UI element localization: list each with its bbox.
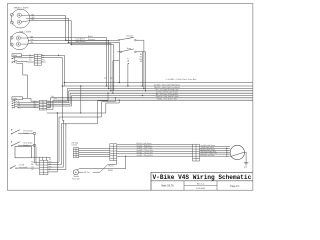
node bus2 tee (62, 85, 63, 86)
connector J6 (193, 144, 200, 161)
date cell (196, 188, 206, 190)
wire lights box to J2 (23, 98, 40, 101)
node feeder tee (57, 112, 58, 113)
wire tail light 2 (28, 41, 109, 89)
svg-text:Blk: Blk (29, 55, 31, 57)
controller label (72, 142, 79, 146)
bus spare labels (51, 96, 57, 100)
connector J2 left labels (34, 101, 37, 109)
svg-text:Page # 1: Page # 1 (230, 186, 240, 188)
svg-text:Blk: Blk (31, 36, 34, 38)
wire J5 to J6 row 3 (117, 148, 193, 150)
throttle wire label (108, 165, 114, 172)
wire J6 to motor 6 (200, 155, 230, 157)
svg-text:Grn: Grn (31, 166, 34, 168)
rear brake label (23, 142, 32, 146)
connector J1 (34, 54, 41, 65)
motor bundle label 2 (137, 144, 153, 147)
svg-text:Key Switch: Key Switch (19, 166, 28, 169)
wire bus line 6 (72, 95, 253, 97)
wire key switch to J3 (17, 167, 40, 169)
border frame (8, 4, 253, 191)
bus label 1 (166, 78, 197, 81)
svg-text:Gry: Gry (42, 60, 45, 62)
wire sel 3 to J2 (17, 105, 39, 107)
wire J5 to J6 row 1 (117, 143, 193, 145)
svg-text:Blu: Blu (32, 19, 35, 21)
svg-text:Org: Org (51, 96, 54, 98)
bus label 3 (154, 86, 180, 89)
wire bus line 5 (70, 92, 253, 94)
motor wire label 4 (201, 150, 217, 153)
rear brake switch (11, 141, 20, 146)
wire head light low beam (30, 16, 118, 40)
selector labels (18, 101, 21, 110)
wire throttle 2 (93, 161, 117, 173)
wire sel 1 to J2 (17, 102, 39, 104)
wire throttle 3 (77, 156, 126, 170)
svg-text:Red: Red (29, 57, 32, 59)
wire feeder tap 4 (65, 124, 67, 170)
svg-text:Blk: Blk (31, 164, 33, 166)
connector J3 left labels (31, 162, 34, 171)
wire turn R to J1 (17, 60, 35, 63)
svg-text:Running: Running (88, 39, 95, 41)
svg-text:Red: Red (31, 162, 34, 164)
wire battery to J3 (32, 156, 51, 158)
wire tail light 1 (28, 38, 106, 86)
svg-text:Yel/Blk - Horn Button Wire: Yel/Blk - Horn Button Wire (157, 98, 178, 101)
wire dimmer to bus (136, 40, 144, 88)
motor wire label 6 (201, 154, 215, 157)
tail light wire labels (31, 36, 34, 44)
bus label 2 (154, 83, 181, 86)
tail wire mid labels (88, 36, 95, 41)
front brake plug (33, 132, 35, 134)
motor wire label 3 (201, 148, 216, 151)
wire flasher to J1 (22, 54, 35, 56)
title text (153, 174, 252, 181)
selector switch stack (12, 99, 18, 108)
wire battery drop 3 (45, 157, 47, 160)
wire J6 to motor 1 (200, 146, 230, 148)
motor wire label 2 (201, 146, 215, 149)
svg-text:Lt Grn/Blk + Lt/Grn Power From: Lt Grn/Blk + Lt/Grn Power From Batt (166, 78, 197, 81)
wire tail light 3 (28, 43, 111, 91)
bus label 7 (155, 95, 178, 98)
wire J6 to motor 4 (200, 151, 230, 153)
wire J3 out 2 (48, 164, 61, 166)
svg-text:Brake: Brake (88, 36, 93, 38)
wire head light ground (30, 21, 114, 91)
wire bus line 8 (53, 99, 253, 101)
wire front brake drop (34, 134, 39, 162)
head light lamp (10, 9, 30, 28)
wire battery drop 2 (42, 157, 44, 160)
wire J1 out 1 (41, 55, 64, 86)
wire J5 to J6 row 6 (117, 155, 193, 157)
wire front brake (18, 132, 33, 134)
bus drop labels (105, 76, 113, 79)
wire cluster drop (17, 64, 28, 99)
wire battery drop 1 (38, 157, 40, 160)
page cell (230, 186, 240, 188)
wire J5 to J6 row 4 (117, 150, 193, 152)
svg-text:gnd: gnd (244, 166, 247, 168)
svg-text:Horn: Horn (127, 48, 131, 50)
svg-text:High Beam: High Beam (76, 41, 86, 43)
svg-text:Hi: Hi (18, 101, 20, 103)
wire rear brake (18, 144, 33, 146)
rev cell (197, 183, 205, 185)
wire bus line 1 (64, 82, 252, 84)
svg-text:Blu: Blu (49, 169, 51, 171)
wire feeder drop 1 (48, 113, 58, 172)
motor wire label 5 (201, 152, 217, 155)
connector J1 right labels (42, 55, 45, 62)
front brake switch (11, 129, 20, 134)
wire J2 out 4 (47, 96, 72, 107)
wire battery drop 4 (49, 157, 51, 160)
rear brake plug (33, 144, 35, 146)
motor bundle label 6 (137, 154, 153, 157)
motor bundle label 4 (137, 149, 154, 152)
high beam label (76, 41, 86, 43)
motor M1 (230, 145, 244, 159)
wire bus8 to J2 (47, 100, 53, 109)
wire J1 out 2 feeder (41, 58, 62, 121)
flasher box (12, 54, 22, 57)
wire sel 4 to J2 (17, 107, 39, 109)
wire color stack labels (139, 54, 143, 63)
wire horn to bus 1 (141, 52, 143, 86)
motor bundle label 5 (137, 151, 154, 154)
ground symbol (244, 163, 248, 169)
connector J3 right labels (49, 162, 52, 171)
node power tap (80, 85, 81, 86)
svg-text:Blk/Wht: Blk/Wht (108, 169, 114, 172)
svg-text:Lo: Lo (18, 103, 20, 105)
dimmer switch (118, 37, 144, 41)
svg-text:Grn/Blk + Phase Wire: Grn/Blk + Phase Wire (137, 154, 153, 157)
wire throttle 1 (79, 171, 84, 173)
throttle pot label (84, 171, 90, 174)
wire J6 to motor 2 (200, 147, 230, 149)
svg-text:Pnk: Pnk (54, 98, 57, 100)
tail light label (19, 30, 32, 33)
wire J4 to J5 row 2 (79, 150, 110, 152)
throttle label (72, 175, 80, 180)
wire J3 out 3 (48, 166, 64, 168)
wire bus line 3 (67, 88, 253, 90)
node head light elbows (65, 40, 72, 46)
connector J3 (40, 160, 48, 174)
svg-text:Blu: Blu (31, 42, 34, 44)
wire feeder run 3 (61, 93, 108, 165)
motor wire label 1 (201, 144, 216, 147)
svg-text:1-29-2005: 1-29-2005 (196, 188, 206, 190)
node J1 out junction (58, 55, 65, 84)
svg-text:Gry: Gry (31, 39, 34, 41)
svg-text:Blk: Blk (140, 61, 143, 63)
svg-text:Red: Red (49, 162, 52, 164)
wire horn to bus 2 (145, 52, 147, 91)
connector J2 right labels (48, 100, 51, 109)
motor bundle label 3 (137, 147, 153, 150)
connector J2 (39, 100, 47, 110)
head light wire labels (32, 14, 36, 21)
wire turn L to J1 (17, 57, 35, 59)
svg-text:Dimmer: Dimmer (126, 36, 133, 38)
motor wire arrowheads (226, 148, 228, 157)
horn button label (127, 48, 131, 50)
wire J3 out 1 (48, 161, 59, 163)
tail light lamp (10, 32, 28, 50)
wire J2 out 2 (47, 91, 69, 103)
wire bus7 to J2 (47, 98, 51, 108)
svg-text:Control: Control (72, 144, 78, 147)
wire horn left lead (113, 52, 120, 93)
svg-text:Yel: Yel (31, 169, 34, 171)
wire dashed drop (126, 58, 129, 86)
connector J1 left labels (29, 55, 32, 62)
dimmer switch label (126, 36, 133, 38)
wire feeder run 1 (47, 100, 119, 113)
connector J5 (110, 144, 117, 161)
wire rear brake drop (36, 146, 40, 165)
throttle twist grip (73, 170, 78, 175)
horn button switch (117, 49, 145, 53)
svg-text:HEAD LIGHT: HEAD LIGHT (14, 6, 30, 9)
bus label 5 (156, 91, 179, 94)
wire feeder tap 3 (63, 121, 65, 167)
wire J5 to J6 row 2 (117, 146, 193, 148)
wire J3 out 4 (48, 169, 66, 171)
svg-text:Blk: Blk (49, 164, 51, 166)
svg-text:Grn: Grn (29, 60, 32, 62)
author cell (161, 185, 174, 188)
svg-text:Rev 1.0: Rev 1.0 (197, 183, 205, 185)
wire bus line 4 (69, 90, 253, 92)
svg-text:Wht/Grn: Wht/Grn (108, 165, 114, 168)
bus label 6 (156, 94, 178, 96)
wire J1 out 4 (41, 61, 45, 63)
low beam label (76, 39, 86, 41)
wire feeder run 2 (59, 98, 115, 163)
wire sel 2 to J2 (17, 103, 39, 105)
head light label (14, 6, 30, 9)
wire J5 to J6 row 5 (117, 153, 193, 155)
light switch box (12, 97, 23, 100)
ellipsis dots (128, 60, 129, 64)
bus label 8 (157, 98, 178, 101)
turn signal switch (12, 57, 18, 65)
svg-text:Blk Main Gnd Wire: Blk Main Gnd Wire (201, 154, 215, 157)
wire J4 to J5 row 1 (79, 148, 110, 150)
wire motor ground (244, 152, 246, 162)
wire J6 to motor 3 (200, 149, 230, 151)
svg-text:TAIL LIGHT: TAIL LIGHT (19, 30, 32, 33)
wire J6 to motor 5 (200, 153, 230, 155)
wire bus line 2 (62, 85, 252, 87)
wire J2 out 3 (47, 93, 70, 104)
node throttle tap (125, 156, 126, 157)
wire bus line 7 (51, 97, 253, 99)
front brake label (23, 129, 32, 134)
wire power tap drop (80, 86, 82, 113)
battery box (15, 147, 32, 158)
svg-text:Mark GILTN: Mark GILTN (161, 185, 174, 188)
wire J2 out 1 (47, 89, 68, 102)
svg-text:Twist Grip: Twist Grip (72, 177, 80, 180)
title block frame (151, 172, 253, 190)
key switch label (19, 165, 28, 169)
bus label 4 (155, 88, 179, 91)
wire J4 to J5 row 5 (79, 156, 110, 158)
key switch (10, 165, 17, 168)
svg-text:V-Bike V4S Wiring Schematic: V-Bike V4S Wiring Schematic (153, 174, 252, 181)
svg-text:5K Pot: 5K Pot (84, 171, 90, 174)
wire head light high beam (30, 18, 119, 82)
node bus junctions (63, 82, 146, 125)
wire J4 to J5 row 4 (79, 154, 110, 156)
connector J4 (73, 148, 78, 158)
wire J4 to J5 row 3 (79, 152, 110, 154)
motor bundle label 1 (137, 142, 152, 145)
svg-text:L: L (16, 59, 17, 61)
